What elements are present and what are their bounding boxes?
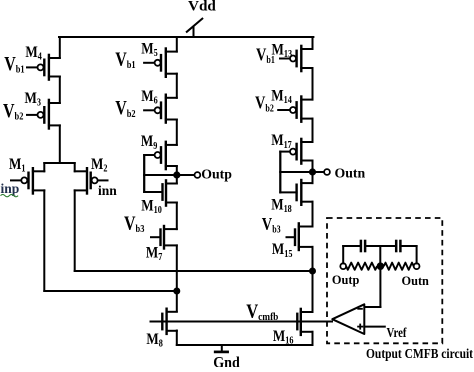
- wire M17/M18 gate tie: [279, 152, 281, 193]
- wire M4 to M3: [59, 77, 61, 104]
- transistor M8 (NMOS): [151, 309, 177, 334]
- capacitor C1: [361, 240, 365, 253]
- transistor M2 (PMOS): [75, 168, 108, 193]
- wire M14 to M17: [312, 119, 314, 142]
- terminal Outp: [195, 172, 201, 178]
- wire center riser to C2: [380, 245, 396, 247]
- Output CMFB circuit dashed box: [327, 218, 442, 343]
- wire M7 source down: [176, 245, 178, 291]
- wire to op-amp inverting input: [364, 306, 380, 308]
- wire M2 source drop: [74, 163, 76, 171]
- transistor M1 (PMOS): [11, 168, 44, 193]
- wire Outp node line: [144, 174, 194, 176]
- transistor M5 (PMOS): [144, 49, 177, 77]
- wire Vdd stub: [193, 28, 195, 38]
- node Outp junction: [173, 171, 180, 178]
- op-amp U1 (CMFB amplifier): [332, 304, 364, 334]
- transistor M3 (PMOS): [27, 100, 60, 129]
- wire fold node to M16 drain: [312, 271, 314, 312]
- ground: [215, 345, 227, 352]
- wire M5 to M6: [176, 74, 178, 98]
- wire M1 drain down: [43, 190, 45, 291]
- wire C1 to center riser: [365, 245, 380, 247]
- wire left sense riser: [342, 246, 344, 263]
- wire input pair source bar: [44, 162, 74, 164]
- wire M1 drain to mid fold node: [44, 290, 177, 292]
- wire M16 source down: [312, 332, 314, 345]
- svg-text:Output CMFB circuit: Output CMFB circuit: [366, 346, 474, 361]
- wire Vref input: [364, 326, 385, 328]
- svg-text:Vref: Vref: [387, 325, 408, 340]
- transistor M14 (PMOS): [278, 97, 312, 122]
- terminal Outn: [324, 169, 330, 175]
- wire M2 drain down: [74, 190, 76, 271]
- svg-text:Outn: Outn: [402, 274, 429, 288]
- transistor M17 (PMOS): [280, 139, 312, 172]
- transistor M15 (NMOS): [287, 223, 313, 250]
- wire M18 to M15: [312, 202, 314, 227]
- wire fold node to M8 drain: [176, 291, 178, 312]
- svg-text:inn: inn: [98, 183, 117, 198]
- wire center riser down: [379, 246, 381, 263]
- Vdd supply slash: [187, 19, 203, 32]
- transistor M9 (PMOS): [144, 142, 177, 175]
- wire M17 drain to Outn node: [312, 161, 314, 184]
- wire M9 drain to Outp node: [176, 166, 178, 184]
- resistor R1 (Outp sense): [346, 263, 377, 270]
- wire midpoint down: [379, 266, 381, 307]
- wire Outn node line: [280, 171, 324, 173]
- transistor M6 (PMOS): [144, 95, 177, 123]
- wire M8 source down: [176, 331, 178, 346]
- transistor M4 (PMOS): [27, 55, 60, 80]
- wire M9/M10 gate tie: [143, 155, 145, 192]
- svg-text:Vdd: Vdd: [188, 0, 216, 15]
- svg-text:Gnd: Gnd: [213, 355, 240, 367]
- wire M13 to M14: [312, 68, 314, 100]
- node middle fold junction: [173, 288, 180, 295]
- wire CMFB output to M8/M16 gates: [151, 321, 332, 323]
- svg-text:Outp: Outp: [201, 167, 232, 182]
- resistor R2 (Outn sense): [384, 263, 414, 270]
- terminal CMFB Outn sense: [414, 263, 420, 269]
- wire tail of input pair: [59, 125, 61, 163]
- wire to C1: [343, 245, 361, 247]
- wire Vdd top rail: [59, 36, 313, 38]
- transistor M7 (NMOS): [151, 226, 177, 249]
- svg-text:Outp: Outp: [332, 273, 359, 287]
- transistor M16 (NMOS): [290, 309, 313, 335]
- wire M15 source down: [312, 247, 314, 271]
- wire rail to M13: [312, 37, 314, 49]
- inp wavy underline: [1, 194, 19, 196]
- wire C2 to right riser: [400, 245, 416, 247]
- wire M6 to M9: [176, 120, 178, 145]
- node right fold junction: [309, 268, 316, 275]
- wire M2 drain to right fold node: [75, 270, 313, 272]
- node CMFB midpoint: [377, 262, 385, 270]
- wire rail to M5: [176, 37, 178, 52]
- svg-text:Outn: Outn: [335, 166, 366, 181]
- transistor M13 (PMOS): [280, 46, 313, 71]
- terminal CMFB Outp sense: [340, 263, 346, 269]
- wire ground rail: [177, 344, 313, 346]
- wire rail to M4: [59, 37, 61, 58]
- wire M10 to M7: [176, 203, 178, 230]
- wire right sense riser: [416, 246, 418, 263]
- transistor M10 (NMOS): [144, 175, 177, 206]
- wire M1 source drop: [43, 163, 45, 171]
- node Outn junction: [309, 168, 316, 175]
- transistor M18 (NMOS): [280, 172, 312, 205]
- capacitor C2: [396, 240, 400, 253]
